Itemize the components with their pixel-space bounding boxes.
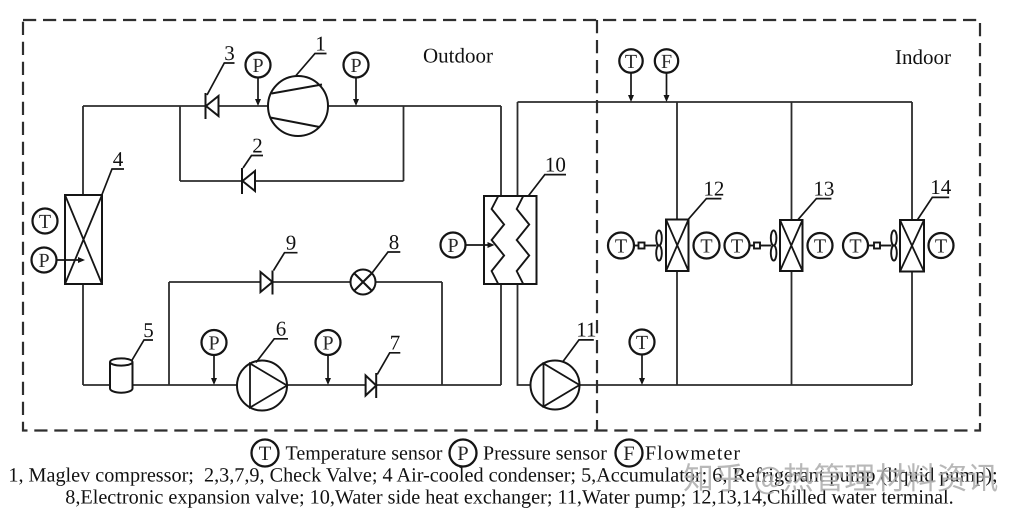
svg-text:Outdoor: Outdoor	[423, 44, 493, 68]
svg-text:T: T	[615, 235, 627, 257]
svg-text:P: P	[252, 55, 263, 77]
svg-text:Temperature sensor: Temperature sensor	[286, 443, 443, 465]
svg-text:P: P	[350, 55, 361, 77]
svg-text:Indoor: Indoor	[895, 45, 951, 69]
svg-text:4: 4	[113, 147, 124, 171]
svg-text:3: 3	[224, 41, 235, 65]
svg-text:5: 5	[143, 318, 154, 342]
svg-text:P: P	[447, 235, 458, 257]
svg-text:2: 2	[252, 133, 263, 157]
svg-text:P: P	[457, 443, 468, 465]
svg-text:9: 9	[286, 231, 297, 255]
svg-text:14: 14	[930, 175, 952, 199]
svg-text:T: T	[700, 235, 712, 257]
svg-text:6: 6	[276, 317, 287, 341]
svg-text:P: P	[208, 332, 219, 354]
svg-text:F: F	[661, 51, 672, 73]
svg-text:P: P	[322, 332, 333, 354]
svg-text:11: 11	[576, 318, 596, 342]
svg-text:13: 13	[813, 176, 834, 200]
svg-text:T: T	[935, 235, 947, 257]
svg-text:T: T	[636, 332, 648, 354]
svg-text:F: F	[623, 443, 634, 465]
svg-text:7: 7	[390, 331, 401, 355]
svg-text:T: T	[731, 235, 743, 257]
svg-text:T: T	[625, 51, 637, 73]
svg-text:P: P	[38, 250, 49, 272]
svg-text:12: 12	[703, 176, 724, 200]
svg-text:1: 1	[315, 31, 326, 55]
svg-text:Flowmeter: Flowmeter	[645, 443, 741, 465]
svg-text:8: 8	[389, 230, 400, 254]
svg-text:T: T	[849, 235, 861, 257]
svg-text:8,Electronic expansion valve;: 8,Electronic expansion valve; 10,Water s…	[65, 487, 953, 509]
svg-text:T: T	[259, 443, 272, 465]
svg-text:T: T	[39, 211, 51, 233]
svg-text:T: T	[814, 235, 826, 257]
svg-text:Pressure sensor: Pressure sensor	[483, 443, 607, 465]
svg-text:10: 10	[545, 152, 566, 176]
